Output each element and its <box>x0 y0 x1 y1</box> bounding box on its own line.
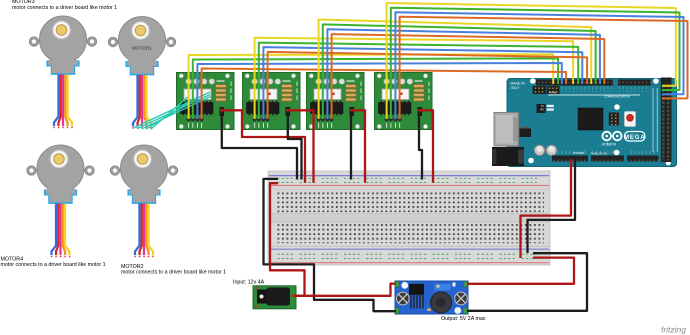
bottom headers <box>552 150 659 162</box>
indicator dot on 3 <box>332 93 334 95</box>
trimpot <box>434 283 451 291</box>
wire: red supply wire driver board 2 to breadboard + rail <box>288 110 314 182</box>
USB connector <box>494 113 519 147</box>
LM2596 buck converter module <box>395 281 468 314</box>
indicator dot on 2 <box>268 93 270 95</box>
voltage regulator <box>520 129 532 138</box>
svg-text:PWM: PWM <box>549 91 557 95</box>
driver board 2 <box>243 73 301 130</box>
wire: red from breadboard top rail to 12V input terminal <box>270 183 305 296</box>
svg-text:motor connects to a driver boa: motor connects to a driver board like mo… <box>1 262 106 268</box>
svg-text:MOTOR1: MOTOR1 <box>132 45 152 50</box>
wire: blue signal board 3 IN3 to Arduino <box>327 29 600 119</box>
wire: green signal board 2 IN2 to Arduino <box>259 43 578 119</box>
wire: orange signal board 1 IN4 to Arduino <box>202 69 566 120</box>
wire: black Arduino GND to breadboard bottom rail <box>528 159 576 253</box>
indicator dot on 4 <box>400 93 402 95</box>
Arduino Mega 2560 board <box>492 78 677 167</box>
svg-text:ITALY: ITALY <box>511 86 521 90</box>
inductor <box>431 292 452 313</box>
top pin header digital <box>536 80 651 92</box>
capacitors <box>534 145 544 155</box>
svg-text:MEGA: MEGA <box>624 135 646 141</box>
power jack <box>492 147 524 166</box>
2x4 gold header <box>609 113 619 126</box>
wire: yellow signal board 2 IN1 to Arduino <box>255 38 573 119</box>
wire: black ground wire driver board 4 to breadboard rail <box>419 113 422 180</box>
wire: blue signal board 1 IN3 to Arduino <box>197 63 561 119</box>
wire: orange signal board 4 IN4 to Arduino side header <box>400 17 688 119</box>
wire: red supply wire driver board 1 to breadboard + rail <box>222 110 305 182</box>
stepper motor MOTOR1 (top-right) <box>108 17 175 129</box>
wire: black buck converter output - to breadboard bottom rail <box>467 253 587 311</box>
ATmega2560 chip <box>578 108 603 130</box>
wire: teal motor MOTOR1 lead 4 to driver board 1 <box>147 98 197 129</box>
wire: teal motor MOTOR1 lead 5 to driver board 1 <box>151 97 188 129</box>
wire: blue signal board 2 IN3 to Arduino <box>263 47 582 119</box>
wire: yellow signal board 4 IN1 to Arduino side header <box>387 3 676 119</box>
PWM bracket line <box>548 94 640 96</box>
LM2596 regulator chip <box>409 284 424 309</box>
wire: red from 12V input terminal to buck converter input + <box>294 284 397 296</box>
stepper motor MOTOR2 (bottom-right) <box>110 145 177 257</box>
breadboard <box>268 171 550 265</box>
stepper motor MOTOR3 (top-left) <box>29 16 96 128</box>
wire: yellow signal board 1 IN1 to Arduino <box>189 54 554 119</box>
wire: teal motor MOTOR1 lead 3 to driver board 1 <box>142 97 210 129</box>
driver board 4 <box>375 73 433 130</box>
svg-text:motor connects to a driver boa: motor connects to a driver board like mo… <box>12 5 117 11</box>
wire: yellow signal board 3 IN1 to Arduino <box>319 20 592 120</box>
wire: orange signal board 3 IN4 to Arduino <box>332 34 605 119</box>
svg-text:Arduino: Arduino <box>602 142 617 147</box>
wire: red supply wire driver board 4 to breadboard + rail <box>419 110 433 182</box>
reset button <box>625 112 636 127</box>
driver board 1 <box>177 73 235 130</box>
output capacitor <box>455 292 468 305</box>
wire: red buck converter output + to breadboard bottom rail <box>467 258 574 284</box>
input capacitor <box>397 292 410 305</box>
wire: green signal board 3 IN2 to Arduino <box>323 24 596 119</box>
mounting holes <box>530 78 536 84</box>
side double-row header digital 22-53 <box>653 78 672 163</box>
USB chip <box>537 104 546 113</box>
MEGA label box <box>624 132 646 142</box>
svg-text:TX: TX <box>541 104 545 108</box>
wire: orange signal board 2 IN4 to Arduino <box>268 52 587 119</box>
driver board 3 <box>307 73 365 130</box>
wire: green signal board 1 IN2 to Arduino <box>193 58 558 119</box>
svg-text:MADE IN: MADE IN <box>511 82 526 86</box>
wire: black ground wire driver board 1 to breadboard rail <box>222 113 297 180</box>
wire: red supply wire driver board 3 to breadboard + rail <box>351 110 365 182</box>
wire: black ground wire driver board 2 to breadboard rail <box>288 113 302 180</box>
TX RX leds <box>547 105 554 107</box>
svg-text:Output: 5V 2A max: Output: 5V 2A max <box>441 316 486 322</box>
stepper motor MOTOR4 (bottom-left) <box>27 145 94 257</box>
ICSP headers <box>533 86 560 94</box>
wire: red Arduino 5V to breadboard bottom rail <box>521 159 572 258</box>
wire: teal motor MOTOR1 lead 2 to driver board 1 <box>138 95 210 129</box>
wire: green signal board 4 IN2 to Arduino side header <box>391 8 680 119</box>
svg-text:Input: 12v 4A: Input: 12v 4A <box>233 280 265 286</box>
Arduino infinity logo <box>602 132 621 141</box>
svg-text:motor connects to a driver boa: motor connects to a driver board like mo… <box>121 270 226 276</box>
svg-text:fritzing: fritzing <box>661 325 686 335</box>
svg-text:RX: RX <box>540 108 544 112</box>
12V power input terminal module <box>253 286 296 309</box>
wire: black ground wire driver board 3 to breadboard rail <box>350 113 352 180</box>
wire: black from breadboard top rail to buck converter input - <box>264 179 397 311</box>
svg-text:COMMUNICATION: COMMUNICATION <box>604 95 630 99</box>
wire: blue signal board 4 IN3 to Arduino side header <box>395 12 683 119</box>
wire: teal motor MOTOR1 lead 1 to driver board 1 <box>134 92 210 128</box>
